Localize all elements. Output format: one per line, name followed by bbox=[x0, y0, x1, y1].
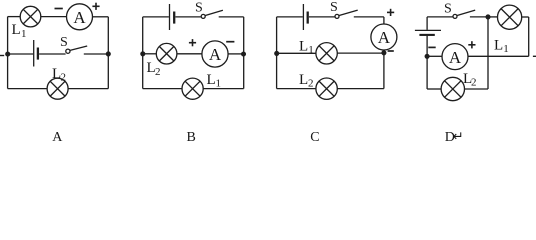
ammeter U4 (circuit D) bbox=[442, 44, 468, 70]
lamp L1 (circuit D) bbox=[498, 5, 522, 29]
svg-text:1: 1 bbox=[216, 78, 222, 90]
svg-text:A: A bbox=[378, 28, 391, 47]
node: B middle-left junction bbox=[141, 52, 145, 56]
wire: C right vertical below ammeter bbox=[383, 50, 385, 89]
polarity - of ammeter (circuit C) bbox=[388, 50, 394, 52]
switch S (circuit B) bbox=[201, 10, 223, 18]
lamp L2 (circuit D) bbox=[441, 77, 464, 100]
svg-text:S: S bbox=[195, 1, 203, 16]
svg-text:A: A bbox=[449, 48, 462, 67]
svg-text:L: L bbox=[207, 72, 216, 88]
battery B2 (circuit B) bbox=[170, 4, 175, 30]
svg-text:A: A bbox=[73, 8, 86, 27]
svg-text:2: 2 bbox=[308, 78, 314, 90]
wire: D lamp to top-right corner bbox=[522, 16, 529, 18]
wire: A middle wire to battery bbox=[8, 53, 33, 55]
polarity - of ammeter (circuit D) bbox=[428, 46, 435, 48]
wire: B switch to right bbox=[219, 16, 244, 18]
wire: D bottom-right segment bbox=[465, 88, 488, 90]
wire: C middle-left segment bbox=[277, 52, 316, 54]
wire: D right vertical bbox=[528, 17, 530, 56]
switch S (circuit C) bbox=[335, 10, 358, 18]
wire: D bottom-left segment bbox=[427, 88, 441, 90]
node: A middle-right junction bbox=[106, 52, 110, 56]
node: D top junction bbox=[486, 15, 490, 19]
wire: stray dash right edge bbox=[533, 55, 536, 57]
battery B4 (circuit D) bbox=[415, 30, 441, 35]
wire: D left vertical to battery bbox=[426, 17, 428, 30]
wire: D middle-right segment bbox=[468, 55, 529, 57]
node: C right junction bbox=[382, 51, 386, 55]
polarity - of ammeter (circuit A) bbox=[55, 8, 63, 10]
node: A middle-left junction bbox=[6, 52, 10, 56]
label L2 (circuit A) bbox=[52, 66, 66, 84]
polarity + of ammeter (circuit C) bbox=[387, 9, 394, 16]
wire: D inner vertical bbox=[487, 17, 489, 89]
wire: C corner down to ammeter bbox=[383, 17, 385, 24]
wire: A top middle segment bbox=[41, 16, 67, 18]
svg-text:L: L bbox=[494, 38, 503, 54]
wire: D junction to lamp bbox=[488, 16, 498, 18]
label L2 (circuit D) bbox=[463, 71, 477, 89]
wire: B bottom-left segment bbox=[143, 88, 182, 90]
lamp L1 (circuit B) bbox=[182, 78, 203, 99]
svg-text:2: 2 bbox=[155, 66, 161, 78]
label L1 (circuit B) bbox=[207, 72, 222, 90]
wire: A switch to right bbox=[84, 53, 109, 55]
ammeter U1 (circuit A) bbox=[67, 4, 93, 30]
switch S (circuit D) bbox=[453, 10, 475, 18]
svg-text:C: C bbox=[310, 130, 319, 145]
label L1 (circuit D) bbox=[494, 38, 509, 56]
wire: B left vertical bbox=[142, 17, 144, 89]
svg-text:L: L bbox=[12, 22, 21, 38]
svg-text:S: S bbox=[60, 35, 68, 50]
node: B middle-right junction bbox=[242, 52, 246, 56]
lamp L2 (circuit A) bbox=[47, 78, 68, 99]
wire: D left vertical below battery bbox=[426, 36, 428, 89]
wire: C bottom-right segment bbox=[337, 88, 384, 90]
wire: B top-left segment bbox=[143, 16, 169, 18]
lamp L1 (circuit A) bbox=[20, 6, 41, 27]
wire: B lamp to ammeter bbox=[177, 53, 202, 55]
battery B1 (circuit A) bbox=[34, 40, 38, 67]
label L1 (circuit C) bbox=[299, 39, 314, 56]
svg-text:1: 1 bbox=[308, 44, 314, 56]
wire: A battery to switch bbox=[39, 53, 66, 55]
wire: A bottom-left segment bbox=[8, 88, 48, 90]
svg-text:S: S bbox=[330, 0, 338, 15]
svg-text:1: 1 bbox=[21, 28, 27, 40]
svg-text:A: A bbox=[209, 45, 222, 64]
wire: B ammeter to right bbox=[228, 53, 244, 55]
svg-text:A: A bbox=[52, 130, 63, 145]
wire: D middle-left segment bbox=[427, 55, 442, 57]
wire: B bottom-right segment bbox=[203, 88, 244, 90]
wire: D switch to junction bbox=[470, 16, 488, 18]
wire: C bottom-left segment bbox=[277, 88, 316, 90]
wire: B middle-left segment bbox=[143, 53, 157, 55]
svg-text:L: L bbox=[299, 72, 308, 88]
polarity + of ammeter (circuit A) bbox=[92, 3, 99, 10]
ammeter U3 (circuit C) bbox=[371, 24, 397, 50]
polarity + of ammeter (circuit D) bbox=[468, 41, 475, 48]
lamp L1 (circuit C) bbox=[316, 43, 337, 64]
node: D middle-left junction bbox=[425, 54, 429, 58]
svg-text:↵: ↵ bbox=[453, 129, 464, 144]
label L1 (circuit A) bbox=[12, 22, 27, 40]
label L2 (circuit B) bbox=[147, 60, 161, 78]
wire: C switch to top-right corner bbox=[354, 16, 384, 18]
wire: C middle-right segment bbox=[337, 52, 384, 54]
wire: A top-right segment bbox=[93, 16, 109, 18]
wire: A top-left segment bbox=[8, 16, 21, 18]
battery B3 (circuit C) bbox=[303, 4, 307, 30]
wire: C left vertical bbox=[276, 17, 278, 89]
polarity + of ammeter (circuit B) bbox=[189, 39, 196, 46]
wire: A bottom-right segment bbox=[68, 88, 108, 90]
wire: A left vertical bbox=[7, 17, 9, 89]
wire: A right vertical bbox=[107, 17, 109, 89]
svg-text:2: 2 bbox=[471, 77, 477, 89]
polarity - of ammeter (circuit B) bbox=[226, 41, 234, 43]
svg-text:S: S bbox=[444, 2, 452, 17]
svg-text:B: B bbox=[187, 130, 196, 145]
wire: C top-left segment bbox=[277, 16, 303, 18]
lamp L2 (circuit C) bbox=[316, 78, 337, 99]
wire: C battery to switch bbox=[309, 16, 335, 18]
svg-text:1: 1 bbox=[503, 43, 509, 55]
node: C middle-left junction bbox=[275, 52, 279, 56]
wire: D top-left segment bbox=[427, 16, 453, 18]
wire: B right vertical bbox=[243, 17, 245, 89]
label L2 (circuit C) bbox=[299, 72, 314, 90]
ammeter U2 (circuit B) bbox=[202, 41, 228, 67]
wire: B battery to switch bbox=[175, 16, 201, 18]
wire: stray dash left edge bbox=[0, 55, 4, 57]
lamp L2 (circuit B) bbox=[156, 43, 177, 64]
svg-text:L: L bbox=[299, 39, 308, 55]
switch S (circuit A) bbox=[66, 46, 87, 53]
